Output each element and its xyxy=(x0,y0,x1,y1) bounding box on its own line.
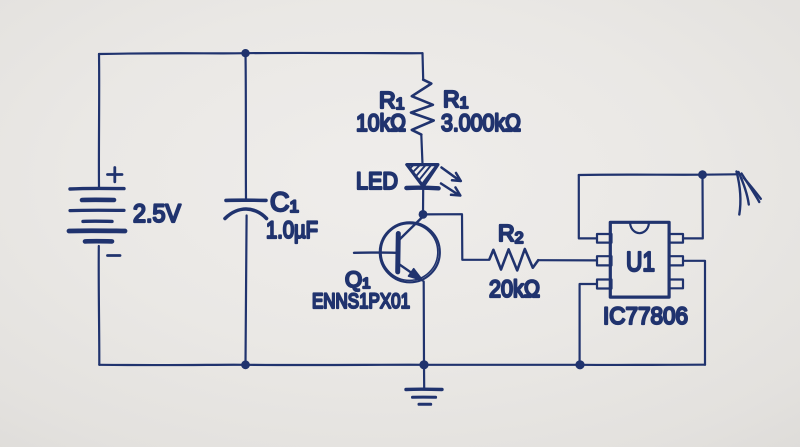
wire LED to collector node xyxy=(422,189,424,215)
svg-text:ENNS1PX01: ENNS1PX01 xyxy=(312,290,410,313)
wire U1 pin3 to bottom rail xyxy=(580,284,597,365)
svg-text:2.5V: 2.5V xyxy=(133,200,181,228)
svg-text:10kΩ: 10kΩ xyxy=(356,110,406,137)
svg-text:20kΩ: 20kΩ xyxy=(489,276,540,303)
wire capacitor to bottom rail xyxy=(246,216,247,365)
wire R1 to LED xyxy=(421,135,422,164)
wire junction to U1 pin4 xyxy=(683,175,703,239)
svg-text:IC77806: IC77806 xyxy=(603,303,688,330)
svg-text:U1: U1 xyxy=(626,246,655,277)
capacitor C1 xyxy=(225,200,267,218)
ground xyxy=(406,365,442,405)
node top rail / C1 junction xyxy=(241,49,249,57)
svg-text:1.0µF: 1.0µF xyxy=(266,217,318,244)
LED D1 xyxy=(406,164,461,196)
IC U1 xyxy=(597,222,683,297)
node U1 top junction xyxy=(698,170,707,179)
node bottom rail U1 junction xyxy=(575,360,584,369)
node ground junction xyxy=(419,360,428,369)
wire top rail xyxy=(99,53,423,54)
wire U1 pin5 to bottom rail xyxy=(683,261,705,365)
wire emitter to bottom rail xyxy=(423,282,425,365)
transistor Q1 xyxy=(354,217,440,283)
wire collector node to R2 xyxy=(423,214,489,260)
frayed wire end xyxy=(737,172,761,215)
wire U1 top rail xyxy=(579,173,736,176)
wire R1 branch from top rail xyxy=(421,53,424,79)
resistor R1 xyxy=(411,80,434,135)
wire capacitor branch top xyxy=(244,53,247,199)
wire battery - to bottom rail xyxy=(98,246,101,365)
wire U1 pin1 to top loop xyxy=(579,175,597,238)
svg-text:3.000kΩ: 3.000kΩ xyxy=(441,110,521,137)
wire left rail (battery +) xyxy=(98,54,100,187)
node collector junction xyxy=(419,210,428,219)
wire R2 to U1 pin2 xyxy=(538,259,597,261)
svg-text:LED: LED xyxy=(356,168,398,195)
battery B1 xyxy=(69,168,125,256)
resistor R2 xyxy=(489,249,538,270)
wire bottom rail xyxy=(99,364,705,367)
node bottom rail / C1 junction xyxy=(241,360,250,369)
